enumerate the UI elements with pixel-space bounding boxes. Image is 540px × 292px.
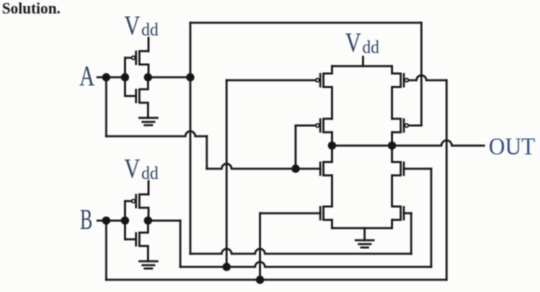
- transistor M5 PMOS right row1: [392, 74, 447, 88]
- transistor M4 NMOS left row2: [320, 207, 332, 220]
- node: inverter A output: [144, 73, 152, 81]
- wire: A drop to gate row: [206, 136, 208, 169]
- node: B to left NMOS2 gate junction: [256, 276, 264, 284]
- node: B gate junction: [121, 216, 129, 224]
- svg-text:dd: dd: [362, 37, 379, 57]
- wire: top rail: [332, 65, 392, 67]
- ground: inverter A: [139, 118, 157, 125]
- transistor M6 PMOS right row2: [392, 119, 421, 132]
- wire: A' top run: [190, 22, 421, 24]
- wire: inverter A gate bus: [124, 58, 126, 96]
- transistor Q4 NMOS inverter B: [125, 221, 148, 262]
- node: A' junction: [186, 73, 194, 81]
- transistor Q1 PMOS inverter A: [125, 51, 149, 77]
- wire: left NMOS2 gate riser (B): [259, 213, 261, 280]
- wire: inverter B output run: [148, 220, 180, 222]
- wire: Vdd stub inverter A: [148, 38, 150, 51]
- wire: inverter A output to bus: [148, 76, 190, 78]
- wire: B bottom run: [106, 279, 446, 281]
- wire: left branch bus segments: [331, 66, 333, 228]
- transistor M8 NMOS right row2: [392, 207, 411, 220]
- transistor M3 NMOS left row1: [320, 162, 332, 175]
- svg-text:dd: dd: [141, 20, 158, 40]
- wire: B' bottom run with hop: [180, 262, 431, 267]
- label: Vdd gate network: [345, 28, 379, 58]
- wire: input B lead: [98, 220, 126, 222]
- ground: gate network: [356, 228, 374, 247]
- wire: A' vertical bus: [189, 23, 191, 254]
- svg-text:A: A: [79, 60, 94, 92]
- wire: Vdd stub gate network: [362, 57, 364, 66]
- label: Vdd inverter B: [124, 154, 158, 184]
- node: left branch output junction: [328, 141, 336, 149]
- wire: input A lead: [98, 76, 126, 78]
- wire: A gate row with hop: [207, 164, 320, 169]
- wire: left NMOS2 gate lead run: [260, 212, 320, 214]
- node: B' to left PMOS1 gate junction: [222, 263, 230, 271]
- svg-text:OUT: OUT: [489, 135, 536, 161]
- wire: A input drop: [105, 77, 107, 136]
- wire: A' drop to right PMOS2 gate: [420, 23, 422, 126]
- node: B branch junction: [102, 216, 110, 224]
- wire: inverter B gate bus: [124, 201, 126, 239]
- svg-text:B: B: [80, 205, 93, 236]
- transistor Q2 NMOS inverter A: [125, 77, 148, 118]
- label: Vdd inverter A: [124, 10, 158, 40]
- svg-text:dd: dd: [141, 163, 158, 183]
- transistor M7 NMOS right row1: [392, 162, 431, 175]
- svg-text:V: V: [124, 154, 140, 184]
- wire: right branch bus segments: [391, 66, 393, 228]
- wire: left PMOS1 gate lead run: [227, 79, 316, 81]
- wire: M8 gate drop to A' net: [410, 213, 412, 254]
- transistor Q3 PMOS inverter B: [125, 194, 149, 220]
- svg-text:V: V: [124, 10, 140, 40]
- transistor M1 PMOS left row1: [316, 74, 332, 88]
- wire: M7 gate drop to B' net: [430, 169, 432, 267]
- wire: A run with hop over A' bus: [106, 131, 207, 136]
- transistor M2 PMOS left row2: [316, 119, 332, 132]
- node: A branch junction: [102, 73, 110, 81]
- wire: A' bottom run with hops: [190, 249, 411, 254]
- wire: output rail with hop: [332, 140, 484, 145]
- node: inverter B output: [144, 216, 152, 224]
- svg-text:Solution.: Solution.: [2, 1, 61, 18]
- wire: Vdd stub inverter B: [148, 181, 150, 194]
- wire: bottom rail: [332, 227, 392, 229]
- node: right branch output junction: [388, 141, 396, 149]
- node: A to PMOS4 gate junction: [291, 165, 299, 173]
- node: A gate junction: [121, 73, 129, 81]
- wire: left PMOS2 gate drop (A): [295, 126, 297, 169]
- wire: B' drop: [179, 221, 181, 267]
- wire: B input drop: [105, 221, 107, 280]
- svg-text:V: V: [345, 28, 361, 58]
- wire: M5 gate drop to B net: [446, 80, 448, 280]
- wire: left PMOS1 gate drop (B'): [226, 80, 228, 267]
- wire: left PMOS2 gate lead run: [296, 125, 316, 127]
- ground: inverter B: [139, 261, 157, 268]
